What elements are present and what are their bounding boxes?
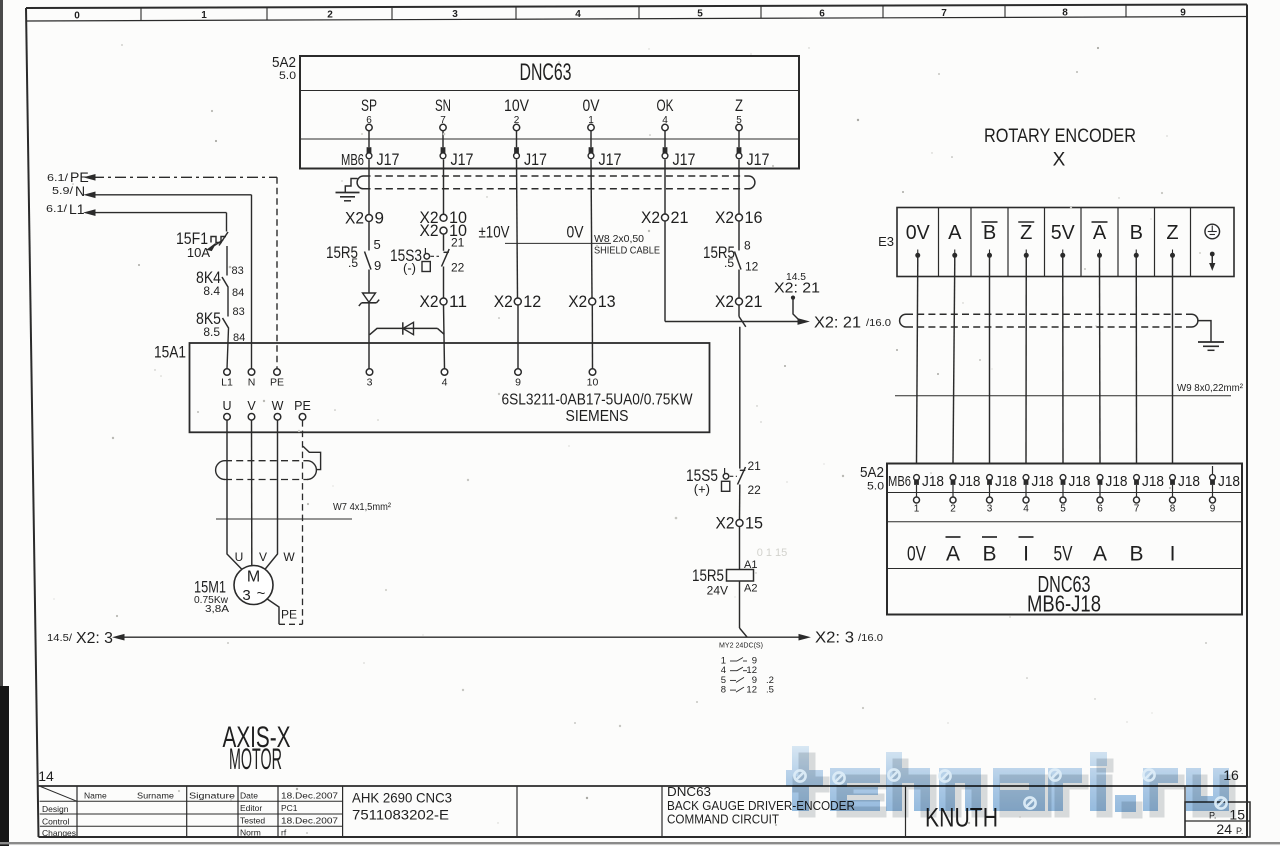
svg-text:3: 3 xyxy=(367,377,373,389)
svg-text:11: 11 xyxy=(449,292,467,311)
wire SN from J17 down xyxy=(443,160,445,215)
terminal 3 of 15A1 xyxy=(366,369,373,376)
wire L1 down to fuse 15F1 xyxy=(226,213,228,232)
svg-text:Design: Design xyxy=(42,804,69,814)
svg-text:4: 4 xyxy=(575,9,581,20)
wire encoder Z to J18 pin 8 xyxy=(1172,264,1174,464)
svg-text:B: B xyxy=(1129,543,1143,566)
svg-text:(+): (+) xyxy=(694,482,710,497)
connector J17 pin under 0V xyxy=(589,147,594,153)
wire U to motor xyxy=(227,420,243,570)
svg-text:rf: rf xyxy=(281,828,287,838)
svg-text:J17: J17 xyxy=(747,150,770,169)
block DNC63 drive unit outline xyxy=(300,56,799,169)
connector J17 pin under Z xyxy=(737,147,742,153)
title block top line xyxy=(38,785,1247,787)
svg-text:7511083202-E: 7511083202-E xyxy=(352,807,449,823)
svg-text:5A2: 5A2 xyxy=(272,54,296,71)
svg-text:PE: PE xyxy=(281,608,297,622)
connector J18 pin 8 xyxy=(1170,475,1176,481)
zener suppressor diode on SP wire xyxy=(363,293,376,302)
svg-text:3: 3 xyxy=(242,587,250,604)
terminal L1 of 15A1 xyxy=(224,369,231,376)
svg-text:X2: X2 xyxy=(716,514,735,533)
terminal 1 of MB6-J18 xyxy=(914,497,920,503)
svg-text:21: 21 xyxy=(671,208,689,227)
svg-text:A: A xyxy=(948,222,962,244)
wire PE vertical dashed to 15A1 xyxy=(276,177,278,368)
connector J18 pin 9 xyxy=(1212,466,1214,475)
svg-text:5: 5 xyxy=(374,237,381,252)
svg-text:A: A xyxy=(1093,222,1107,244)
svg-text:24: 24 xyxy=(1216,821,1232,837)
svg-text:±10V: ±10V xyxy=(479,223,511,242)
svg-text:COMMAND CIRCUIT: COMMAND CIRCUIT xyxy=(667,812,779,827)
svg-text:Tested: Tested xyxy=(240,815,265,825)
J18 strip divider xyxy=(887,492,1242,494)
terminal 9 of 15A1 xyxy=(515,369,522,376)
svg-text:5.0: 5.0 xyxy=(279,70,296,82)
svg-text:.5: .5 xyxy=(766,685,774,696)
svg-text:83: 83 xyxy=(233,306,245,318)
wire 8K4 to 8K5 xyxy=(227,288,229,317)
svg-text:J18: J18 xyxy=(995,473,1017,490)
svg-text:U: U xyxy=(222,399,231,413)
svg-text:N: N xyxy=(75,183,85,199)
svg-text:I: I xyxy=(1023,543,1029,566)
wire W to motor xyxy=(264,420,278,570)
svg-text:1: 1 xyxy=(914,504,920,515)
wire 15R5 to zener xyxy=(368,270,370,294)
svg-text:(-): (-) xyxy=(403,261,416,276)
svg-text:15A1: 15A1 xyxy=(154,343,186,362)
wire X2:12 to terminal 9 xyxy=(517,305,519,369)
svg-text:Name: Name xyxy=(84,791,107,801)
connector J18 pin 6 xyxy=(1097,475,1103,481)
svg-text:8: 8 xyxy=(1170,504,1176,515)
shield cable oval W8 dashed xyxy=(364,175,749,177)
block DNC63 MB6-J18 outline xyxy=(887,464,1242,615)
svg-text:W8 2x0,50: W8 2x0,50 xyxy=(594,233,644,245)
connector J18 pin 1 xyxy=(914,475,920,481)
svg-text:18.Dec.2007: 18.Dec.2007 xyxy=(281,790,338,800)
svg-text:0V: 0V xyxy=(907,543,926,566)
shield cable oval W9 dashed xyxy=(906,313,1192,315)
connector J17 pin under OK xyxy=(663,147,668,153)
svg-text:X2: 3: X2: 3 xyxy=(76,630,113,647)
svg-text:P.: P. xyxy=(1236,826,1243,836)
svg-text:X2: X2 xyxy=(345,209,364,228)
svg-text:W9 8x0,22mm²: W9 8x0,22mm² xyxy=(1177,383,1244,394)
wire horizontal to X2:21 off-page arrow xyxy=(665,321,800,323)
svg-text:MB6: MB6 xyxy=(341,152,364,169)
svg-text:8: 8 xyxy=(1062,8,1068,19)
svg-text:9: 9 xyxy=(374,258,381,273)
wire X2:10 to 15S3 xyxy=(443,234,445,251)
svg-text:W: W xyxy=(272,399,284,413)
svg-text:Surname: Surname xyxy=(137,791,174,801)
svg-text:X: X xyxy=(1053,150,1066,171)
wire X2:21 down to horizontal run xyxy=(664,221,666,322)
svg-text:PE: PE xyxy=(270,377,284,389)
terminal PE of 15A1 xyxy=(274,369,281,376)
svg-text:L1: L1 xyxy=(69,201,85,217)
wire zener to junction and terminal 3 xyxy=(368,303,370,369)
wire X2:15 to relay coil 15R5 xyxy=(739,527,741,570)
svg-text:18.Dec.2007: 18.Dec.2007 xyxy=(281,815,338,825)
svg-text:Control: Control xyxy=(42,816,70,826)
svg-text:6.1/: 6.1/ xyxy=(47,173,68,184)
svg-text:/16.0: /16.0 xyxy=(858,633,883,644)
svg-text:PE: PE xyxy=(294,399,311,413)
svg-text:B: B xyxy=(1130,222,1143,244)
wire from 15F1 to 8K4 xyxy=(226,246,228,276)
svg-text:W: W xyxy=(283,550,295,564)
cable connector oval W7 xyxy=(216,461,225,480)
svg-text:5: 5 xyxy=(697,9,703,20)
svg-text:6.1/: 6.1/ xyxy=(46,204,67,215)
wire V to motor xyxy=(251,420,253,566)
svg-text:X2: X2 xyxy=(420,292,439,311)
svg-text:5.0: 5.0 xyxy=(867,481,884,493)
svg-text:Changes: Changes xyxy=(42,828,76,838)
sheet number box xyxy=(1185,802,1250,837)
svg-text:J18: J18 xyxy=(1106,473,1128,490)
svg-text:A: A xyxy=(1093,543,1107,566)
svg-text:6: 6 xyxy=(819,8,825,19)
svg-text:DNC63: DNC63 xyxy=(520,59,572,86)
ground symbol encoder shield xyxy=(1198,341,1224,343)
svg-text:1: 1 xyxy=(201,10,207,21)
svg-text:X2: X2 xyxy=(494,292,513,311)
svg-text:8: 8 xyxy=(721,685,726,696)
terminal 5 of MB6-J18 xyxy=(1060,497,1066,503)
wire 15S3 to X2:11 xyxy=(443,267,445,299)
wire OK from J17 down xyxy=(664,160,666,215)
svg-text:Norm: Norm xyxy=(240,828,261,838)
MB6-J18 mid divider xyxy=(887,521,1242,523)
block encoder terminal strip E3 xyxy=(897,208,1234,277)
svg-text:0V: 0V xyxy=(583,96,601,115)
svg-text:X2: X2 xyxy=(715,292,734,311)
title block verticals xyxy=(76,786,78,837)
svg-text:AHK 2690 CNC3: AHK 2690 CNC3 xyxy=(352,790,452,806)
svg-text:~: ~ xyxy=(257,585,266,602)
svg-text:12: 12 xyxy=(523,292,541,311)
connector J18 pin 5 xyxy=(1060,475,1066,481)
column index band ticks xyxy=(140,8,142,21)
wire Z from J17 down xyxy=(738,160,740,215)
connector key notch xyxy=(303,446,321,469)
terminal 10 of 15A1 xyxy=(589,369,596,376)
svg-text:V: V xyxy=(247,399,256,413)
svg-text:A2: A2 xyxy=(744,583,757,595)
terminal 2 of MB6-J18 xyxy=(950,497,956,503)
svg-text:16: 16 xyxy=(745,208,763,227)
svg-text:U: U xyxy=(235,550,244,564)
svg-text:3,8A: 3,8A xyxy=(205,603,229,615)
svg-text:L1: L1 xyxy=(221,377,233,389)
svg-text:2: 2 xyxy=(327,10,333,21)
svg-text:14.5/: 14.5/ xyxy=(47,633,72,644)
svg-text:Z: Z xyxy=(1166,222,1178,244)
svg-text:7: 7 xyxy=(1134,504,1140,515)
svg-text:6: 6 xyxy=(1097,504,1103,515)
svg-text:21: 21 xyxy=(748,459,762,473)
shield drain connection step xyxy=(345,179,357,193)
svg-text:E3: E3 xyxy=(878,234,894,249)
svg-text:OK: OK xyxy=(657,96,674,115)
svg-text:9: 9 xyxy=(375,209,384,228)
svg-text:10V: 10V xyxy=(504,96,530,115)
terminal 4 of 15A1 xyxy=(441,369,448,376)
svg-text:N: N xyxy=(248,377,256,389)
cable W8 indicator line xyxy=(505,242,611,244)
DNC63 block divider lines xyxy=(300,90,799,92)
wire encoder 5V to J18 pin 5 xyxy=(1062,264,1064,464)
svg-text:24V: 24V xyxy=(707,584,728,598)
svg-text:10A: 10A xyxy=(187,245,210,260)
wire encoder A to J18 pin 6 xyxy=(1099,264,1102,464)
svg-text:J18: J18 xyxy=(1069,473,1091,490)
svg-text:5V: 5V xyxy=(1051,222,1076,244)
wire X2:16 to 15R5 second contact xyxy=(738,221,740,251)
connector J18 pin 7 xyxy=(1134,475,1140,481)
scanner dark edge left xyxy=(0,0,3,846)
svg-text:Z: Z xyxy=(735,96,743,115)
terminal 7 of MB6-J18 xyxy=(1134,497,1140,503)
svg-text:J17: J17 xyxy=(377,150,400,169)
cable W7 indicator line xyxy=(216,518,352,520)
svg-text:.5: .5 xyxy=(724,256,734,270)
wire X2:13 to terminal 10 xyxy=(591,305,593,369)
svg-text:5V: 5V xyxy=(1054,543,1073,566)
svg-text:0: 0 xyxy=(74,10,80,21)
svg-text:X2: X2 xyxy=(568,292,587,311)
svg-text:J18: J18 xyxy=(1032,473,1054,490)
arrow X2: 3 /16.0 right xyxy=(799,635,809,640)
page border frame xyxy=(26,5,1247,9)
svg-text:MY2 24DC(S): MY2 24DC(S) xyxy=(719,641,763,650)
wire X2:3 horizontal across page xyxy=(115,636,801,638)
svg-text:X2: X2 xyxy=(641,208,660,227)
block 15A1 SIEMENS drive outline xyxy=(190,343,710,432)
svg-text:J17: J17 xyxy=(673,150,696,169)
svg-text:J18: J18 xyxy=(1178,473,1200,490)
wire encoder Z to J18 pin 4 xyxy=(1025,264,1027,464)
svg-text:15R5: 15R5 xyxy=(692,566,724,585)
connector J18 pin 3 xyxy=(987,475,993,481)
svg-text:SIEMENS: SIEMENS xyxy=(566,408,629,425)
svg-text:0 1 15: 0 1 15 xyxy=(757,547,788,559)
svg-text:V: V xyxy=(259,550,267,564)
svg-text:SN: SN xyxy=(435,96,451,115)
svg-text:MOTOR: MOTOR xyxy=(229,743,282,776)
svg-text:83: 83 xyxy=(232,265,244,277)
svg-text:0V: 0V xyxy=(906,222,931,244)
svg-text:.5: .5 xyxy=(348,256,358,270)
wire encoder B to J18 pin 3 xyxy=(989,264,991,464)
svg-text:3: 3 xyxy=(452,9,458,20)
svg-text:8.5: 8.5 xyxy=(203,325,220,339)
svg-text:PC1: PC1 xyxy=(281,803,298,813)
svg-text:12: 12 xyxy=(745,260,759,274)
terminal 9 of MB6-J18 xyxy=(1210,497,1216,503)
motor 15M1 circle xyxy=(234,566,273,605)
connector J18 pin 2 xyxy=(950,475,956,481)
scanner dark edge bottom xyxy=(0,842,1280,844)
svg-text:5: 5 xyxy=(1060,504,1066,515)
connector J17 pin under SP xyxy=(367,147,372,153)
svg-text:6SL3211-0AB17-5UA0/0.75KW: 6SL3211-0AB17-5UA0/0.75KW xyxy=(502,392,694,409)
svg-text:9: 9 xyxy=(1180,7,1186,18)
svg-text:Editor: Editor xyxy=(240,803,262,813)
svg-text:X2: X2 xyxy=(715,208,734,227)
svg-text:SHIELD CABLE: SHIELD CABLE xyxy=(594,245,660,257)
svg-text:22: 22 xyxy=(748,483,762,497)
wire 15R5 to X2:21 lower xyxy=(738,270,740,299)
svg-text:22: 22 xyxy=(451,261,465,275)
svg-text:X2: 21: X2: 21 xyxy=(814,315,861,332)
svg-text:SP: SP xyxy=(361,96,377,115)
terminal 4 of MB6-J18 xyxy=(1023,497,1029,503)
svg-text:13: 13 xyxy=(598,292,616,311)
svg-text:X2: 21: X2: 21 xyxy=(774,280,820,297)
wire 10V from J17 down xyxy=(517,160,518,299)
svg-text:Date: Date xyxy=(240,790,258,800)
svg-text:0V: 0V xyxy=(567,223,585,242)
connector J17 pin under 10V xyxy=(514,147,519,153)
diode in bypass wire xyxy=(402,322,404,334)
svg-text:DNC63: DNC63 xyxy=(667,784,711,799)
svg-text:J17: J17 xyxy=(599,150,622,169)
encoder earth terminal xyxy=(1205,224,1220,239)
svg-text:21: 21 xyxy=(451,236,465,250)
svg-text:2: 2 xyxy=(950,504,956,515)
connector J18 pin 4 xyxy=(1023,475,1029,481)
svg-text:X2: 3: X2: 3 xyxy=(815,630,854,647)
svg-text:J17: J17 xyxy=(524,150,547,169)
svg-text:J18: J18 xyxy=(1142,473,1164,490)
wire N vertical to 15A1 xyxy=(251,195,253,369)
svg-text:7: 7 xyxy=(941,8,947,19)
wire 8K5 to 15A1 L1 terminal xyxy=(227,329,229,369)
terminal 3 of MB6-J18 xyxy=(987,497,993,503)
svg-text:9: 9 xyxy=(1210,504,1216,515)
svg-text:B: B xyxy=(982,543,996,566)
motor PE pigtail xyxy=(267,599,280,625)
svg-text:8: 8 xyxy=(744,239,751,253)
wire 15S5 to X2:15 xyxy=(739,485,741,520)
watermark tehnari.ru xyxy=(793,753,1236,819)
svg-text:/16.0: /16.0 xyxy=(866,318,891,329)
svg-text:J17: J17 xyxy=(451,150,474,169)
wire encoder A to J18 pin 2 xyxy=(953,264,955,464)
wire X2:21 lower crossing junction jog xyxy=(738,305,740,317)
svg-text:5A2: 5A2 xyxy=(860,464,884,481)
wire 0V from J17 down xyxy=(591,160,592,299)
svg-text:14: 14 xyxy=(38,768,54,784)
svg-text:W7 4x1,5mm²: W7 4x1,5mm² xyxy=(333,501,391,513)
svg-text:B: B xyxy=(983,222,996,244)
title block diagonal xyxy=(41,787,78,802)
svg-text:3: 3 xyxy=(987,504,993,515)
wire encoder B to J18 pin 7 xyxy=(1135,264,1137,464)
ground symbol at shield W8 xyxy=(336,192,360,194)
connector J17 pin under SN xyxy=(441,147,446,153)
cable W9 indicator line xyxy=(895,395,1231,397)
svg-text:4: 4 xyxy=(442,377,448,389)
svg-text:4: 4 xyxy=(1023,504,1029,515)
svg-text:MB6-J18: MB6-J18 xyxy=(1027,591,1101,617)
wire encoder 0V to J18 pin 1 xyxy=(917,264,918,464)
terminal 6 of MB6-J18 xyxy=(1097,497,1103,503)
svg-text:5.9/: 5.9/ xyxy=(52,186,73,197)
MB6-J18 lower divider xyxy=(887,568,1242,570)
svg-text:J18: J18 xyxy=(922,473,944,490)
svg-text:9: 9 xyxy=(515,377,521,389)
terminal 8 of MB6-J18 xyxy=(1170,497,1176,503)
svg-text:ROTARY ENCODER: ROTARY ENCODER xyxy=(984,126,1136,147)
wire coil A2 down to X2:3 run xyxy=(739,581,741,628)
svg-text:J18: J18 xyxy=(1218,473,1240,490)
svg-text:A: A xyxy=(946,543,960,566)
shield drain to ground xyxy=(1198,321,1211,342)
wire PE dashed to motor xyxy=(302,420,304,624)
svg-text:21: 21 xyxy=(745,292,763,311)
bypass wire with diode between SP and SN xyxy=(370,328,438,334)
wire X2:11 to terminal 4 xyxy=(444,305,445,369)
svg-text:8.4: 8.4 xyxy=(203,284,220,298)
svg-text:I: I xyxy=(1170,543,1176,566)
watermark slashed-zero ornaments xyxy=(794,769,1226,808)
svg-text:J18: J18 xyxy=(959,473,981,490)
wire SP from J17 down xyxy=(368,160,370,215)
wire X2:9 to 15R5 contact xyxy=(368,222,370,251)
svg-text:84: 84 xyxy=(232,287,244,299)
svg-text:12: 12 xyxy=(746,685,757,696)
terminal N of 15A1 xyxy=(248,369,255,376)
svg-text:15: 15 xyxy=(745,514,763,533)
svg-text:Signature: Signature xyxy=(189,791,235,801)
svg-text:X2: X2 xyxy=(420,221,439,240)
svg-text:MB6: MB6 xyxy=(888,473,911,490)
title block row lines xyxy=(40,800,343,802)
svg-text:M: M xyxy=(247,569,260,586)
svg-text:10: 10 xyxy=(587,377,599,389)
svg-text:Z: Z xyxy=(1020,222,1032,244)
